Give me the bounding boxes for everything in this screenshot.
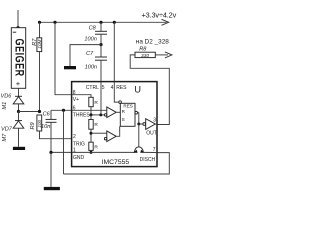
svg-text:5: 5 [102, 85, 105, 91]
wire: comp2 out to FF S [116, 126, 120, 136]
node: rail dot RES [113, 21, 116, 24]
svg-text:R9: R9 [30, 122, 36, 129]
wire: tube to VD6 [18, 88, 20, 96]
wire: GND drop [50, 152, 52, 187]
wire: vertical THRES/TRIG/DISCH net [63, 110, 65, 174]
svg-text:+3.3v÷4.2v: +3.3v÷4.2v [142, 10, 177, 19]
wire: GND row [51, 151, 72, 153]
svg-text:C6: C6 [43, 111, 51, 117]
svg-text:S: S [122, 117, 125, 122]
wire: RES pin to FF [114, 82, 118, 103]
svg-text:7: 7 [153, 147, 156, 153]
svg-text:R: R [94, 100, 98, 106]
wire: transistor to DISCH pin [143, 151, 157, 153]
wire: comp1 out to FF [116, 111, 120, 113]
wire: junction to ground [70, 45, 101, 66]
arrow: output to D2 [165, 52, 172, 58]
wire: CTRL pin down to node A [100, 82, 102, 115]
wire: RES pin from rail [113, 22, 115, 81]
capacitor C7 100n [100, 45, 102, 57]
svg-text:VD7: VD7 [1, 126, 13, 132]
node: R7/R9 junction [38, 110, 41, 113]
ground: C8/C7 node [64, 66, 76, 69]
node: C8/C7 junction [99, 43, 102, 46]
svg-text:OUT: OUT [146, 131, 157, 137]
svg-text:R: R [94, 144, 98, 150]
svg-text:RES: RES [116, 85, 127, 91]
svg-text:3: 3 [153, 118, 156, 124]
svg-text:RES: RES [123, 103, 132, 108]
wire: C7 to CTRL pin [100, 60, 102, 81]
svg-text:GEIGER: GEIGER [12, 39, 26, 77]
svg-text:DISCH: DISCH [140, 157, 156, 163]
resistor R internal 3 [89, 142, 93, 150]
node: rail dot V+ [53, 21, 56, 24]
capacitor C6 10n [50, 110, 52, 119]
svg-text:M1: M1 [2, 102, 8, 110]
svg-text:100n: 100n [85, 65, 97, 71]
svg-text:C8: C8 [89, 25, 97, 31]
wire: OUT to R8 loop [130, 55, 169, 125]
svg-text:V+: V+ [73, 97, 79, 103]
op-amp output inverter [146, 119, 156, 130]
power rail +3.3v..4.2v [40, 21, 167, 23]
op-amp comparator 2 [107, 131, 116, 142]
wire: V+ drop from rail [55, 22, 72, 94]
svg-text:100n: 100n [84, 37, 96, 43]
ground: bottom [44, 187, 60, 190]
ground: diode chain [13, 147, 25, 150]
node: rail dot R7 [38, 21, 41, 24]
svg-text:GND: GND [73, 155, 85, 161]
svg-text:4: 4 [111, 85, 114, 91]
svg-text:R8: R8 [139, 46, 147, 52]
capacitor C8 100n [100, 22, 102, 31]
svg-text:R: R [94, 122, 98, 128]
svg-text:VD6: VD6 [1, 93, 13, 99]
op-amp comparator 1 [107, 107, 116, 118]
wire: THRES row [51, 109, 72, 111]
arrow: rail end [162, 19, 169, 25]
op-amp U (IC box IMC7555) [72, 82, 157, 167]
wire: diode node to R9 node [19, 111, 40, 113]
resistor R7 10M [39, 22, 41, 38]
node B row [90, 132, 93, 135]
node: rail dot C8 [99, 21, 102, 24]
wire: geiger anode stub [17, 10, 19, 28]
resistor R internal 1 [89, 97, 93, 106]
svg-text:330: 330 [141, 53, 149, 59]
resistor R8 330 [135, 52, 155, 57]
wire: THRES to comparator [72, 109, 107, 111]
svg-text:на D2 _328: на D2 _328 [136, 38, 169, 45]
svg-text:M7: M7 [2, 133, 8, 142]
wire: internal GND row [72, 151, 135, 153]
wire: inverter to OUT pin [155, 123, 157, 126]
diode VD6 [15, 95, 22, 97]
svg-text:2: 2 [73, 134, 76, 140]
svg-text:THRES: THRES [73, 112, 91, 118]
svg-text:TRIG: TRIG [73, 141, 85, 147]
flip-flop [120, 103, 135, 126]
svg-text:CTRL: CTRL [86, 85, 99, 91]
svg-text:IMC7555: IMC7555 [102, 159, 130, 166]
geiger tube BD1 [11, 28, 25, 89]
svg-text:C7: C7 [86, 51, 94, 57]
wire: R9 to TRIG row [40, 131, 72, 139]
svg-text:10M: 10M [37, 39, 42, 48]
node: geiger top junction dot [16, 26, 19, 29]
node: GND row dot [49, 151, 52, 154]
wire: internal V+ to divider [72, 95, 91, 98]
wire: bottom loop DISCH net [64, 153, 170, 174]
inverter bubble [143, 123, 146, 126]
resistor R internal 2 [89, 120, 93, 130]
diode VD7 [18, 112, 20, 121]
node A row [91, 114, 104, 116]
FF output bubble [135, 111, 138, 114]
svg-text:10n: 10n [41, 124, 50, 130]
svg-text:+: + [16, 79, 21, 88]
transistor discharge T [138, 124, 140, 147]
node: THRES junction dot [62, 109, 65, 112]
svg-text:U: U [134, 84, 141, 95]
resistor R9 [37, 115, 42, 131]
wire: FF out down to inverter [138, 113, 139, 124]
wire: R8 to arrow [155, 54, 168, 56]
node: diode junction [17, 110, 20, 113]
